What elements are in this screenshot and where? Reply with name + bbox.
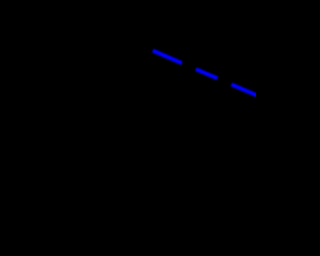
blue dashed line <box>153 51 266 100</box>
